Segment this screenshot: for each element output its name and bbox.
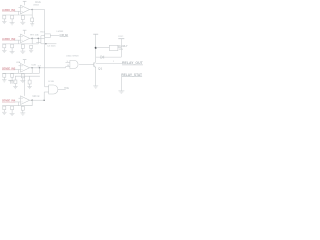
power VCC stub stage 2: [24, 30, 26, 34]
wire vertical bus net A: [44, 10, 46, 68]
wire output stage 1: [30, 9, 33, 11]
wire feedback rail: [2, 14, 32, 16]
resistor R2c: [3, 44, 6, 48]
svg-text:U3A 74H08: U3A 74H08: [66, 55, 79, 58]
svg-text:U1A: U1A: [35, 1, 41, 4]
resistor R17: [28, 80, 31, 84]
svg-text:C4 100n: C4 100n: [47, 45, 56, 47]
ground: [29, 49, 33, 51]
svg-text:9: 9: [67, 61, 68, 63]
resistor R10: [45, 34, 51, 38]
transistor Q1: [93, 63, 95, 67]
ground: [10, 112, 15, 114]
wire R17 bottom: [29, 84, 31, 87]
ground: [2, 111, 7, 113]
wire feedback rail: [2, 72, 32, 74]
svg-text:RELAY_STAT: RELAY_STAT: [121, 73, 143, 77]
diode D1: [101, 56, 104, 59]
resistor R4c: [3, 106, 6, 110]
wire collector rail: [95, 34, 97, 62]
wire inverting input stub: [19, 35, 21, 37]
svg-text:U2B: U2B: [32, 65, 37, 67]
wire bias vertical: [18, 70, 20, 74]
wire bias vertical: [18, 102, 20, 106]
power VCC stub stage 1: [24, 1, 26, 5]
wire bias vertical: [18, 11, 20, 15]
wire drop to rail ext: [37, 38, 39, 44]
svg-text:Q1: Q1: [98, 68, 103, 70]
power VCC T symbol: [8, 79, 13, 81]
wire rail extension: [32, 72, 39, 74]
wire label to op-amp input: [14, 10, 20, 12]
wire stage3 output to gate: [32, 67, 65, 69]
resistor R18: [14, 76, 16, 80]
ground: [20, 21, 25, 23]
svg-text:10: 10: [67, 65, 69, 67]
ground: [2, 21, 7, 23]
svg-text:R9 10k: R9 10k: [30, 34, 40, 36]
wire to net label OUT: [96, 63, 122, 65]
wire inverting input stub: [19, 65, 21, 67]
op-amp U3: [21, 64, 30, 73]
wire jog into gate input: [65, 67, 67, 68]
resistor R3a: [21, 74, 24, 78]
wire feedback drop: [31, 68, 33, 74]
resistor R1d: [31, 18, 34, 22]
wire label to op-amp input: [14, 39, 20, 41]
wire rail extension: [32, 43, 38, 45]
ground: [20, 50, 25, 52]
resistor R11: [30, 45, 33, 48]
ground: [27, 86, 32, 88]
wire output stage 2: [30, 37, 33, 39]
junction stage4 corner: [43, 99, 45, 101]
op-amp U1: [21, 5, 30, 14]
wire output stage 4: [30, 99, 33, 101]
ground: [30, 23, 34, 25]
wire lower jog A: [36, 41, 41, 43]
wire output stage 3: [30, 67, 33, 69]
ground: [10, 80, 15, 82]
wire G1 output: [58, 89, 66, 91]
wire label to op-amp input: [14, 101, 20, 103]
wire feedback rail: [2, 43, 32, 45]
junction stage 4 output: [31, 99, 33, 101]
ground: [2, 49, 7, 51]
ground: [2, 79, 7, 81]
wire to relay coil: [96, 47, 110, 49]
wire inverting input stub: [19, 7, 21, 9]
wire feedback drop: [31, 10, 33, 16]
svg-text:U3B: U3B: [48, 81, 54, 83]
wire stage2 output: [32, 37, 45, 39]
and-gate G1: [49, 85, 58, 94]
and-gate G2: [70, 60, 78, 68]
wire label B to ground: [120, 77, 122, 91]
power rail feed stage4: [15, 75, 40, 77]
ground: [10, 22, 15, 24]
wire feedback rail: [2, 105, 32, 107]
wire feedback drop: [31, 100, 33, 106]
svg-text:12: 12: [37, 65, 42, 67]
wire stage4 output: [32, 99, 44, 101]
wire drop to rail ext: [39, 68, 41, 74]
resistor R4b: [11, 106, 14, 110]
wire lower jog B: [41, 43, 57, 45]
junction stage 1 output: [31, 9, 33, 11]
ground: [20, 112, 25, 114]
junction node B: [45, 43, 46, 44]
wire emitter rail to ground: [95, 68, 97, 86]
svg-text:RELAY_OUT: RELAY_OUT: [122, 61, 144, 65]
resistor R2a: [21, 45, 24, 49]
power VCC2 T: [118, 38, 124, 40]
resistor R2b: [11, 44, 14, 48]
wire to R10: [41, 35, 45, 37]
op-amp U4: [21, 96, 30, 105]
wire inverting input stub: [19, 97, 21, 99]
junction stage 3 output: [31, 67, 33, 69]
junction stage2 feedback tap: [38, 38, 40, 40]
wire stage1 output to bus: [32, 9, 44, 11]
resistor R1c: [3, 15, 6, 19]
svg-text:U2A: U2A: [16, 61, 21, 64]
op-amp U2: [21, 34, 30, 43]
svg-text:VCC: VCC: [118, 36, 124, 38]
junction stage 2 output: [31, 38, 33, 40]
ground: [118, 90, 124, 92]
power VCC bar top of Q1 rail: [93, 33, 98, 35]
wire label to op-amp input: [14, 69, 20, 71]
svg-text:12V: 12V: [119, 49, 124, 51]
svg-text:K1 RLY: K1 RLY: [119, 45, 128, 48]
wire bias vertical: [18, 40, 20, 44]
resistor R1b: [11, 15, 14, 19]
ground: [13, 86, 18, 88]
svg-text:U2C 4c: U2C 4c: [33, 96, 41, 98]
wire up to gate G1: [43, 92, 45, 100]
wire G2 input stub 1: [66, 61, 70, 63]
wire bus A down to gate G1: [44, 68, 46, 87]
resistor R3b: [11, 74, 14, 78]
svg-text:LM324: LM324: [33, 5, 39, 7]
ground: [10, 51, 15, 53]
wire G2 output to Q1 base: [79, 63, 94, 65]
svg-text:1: 1: [113, 61, 114, 63]
wire jog vertical: [40, 36, 42, 44]
relay coil K1: [109, 45, 118, 50]
wire diode branch: [96, 56, 122, 58]
wire feedback drop: [31, 38, 33, 44]
junction relay/collector: [95, 47, 97, 49]
svg-text:TRIG: TRIG: [64, 88, 69, 90]
ground: [20, 80, 25, 82]
resistor R1a: [21, 16, 24, 20]
wire R10 to label: [50, 35, 59, 37]
resistor R3c: [3, 74, 6, 78]
junction stage3 feedback tap: [39, 67, 41, 69]
ground: [93, 85, 98, 87]
wire coil to VCC2: [118, 47, 121, 49]
resistor R4a: [21, 106, 24, 110]
power VCC stub stage 3: [24, 60, 26, 64]
